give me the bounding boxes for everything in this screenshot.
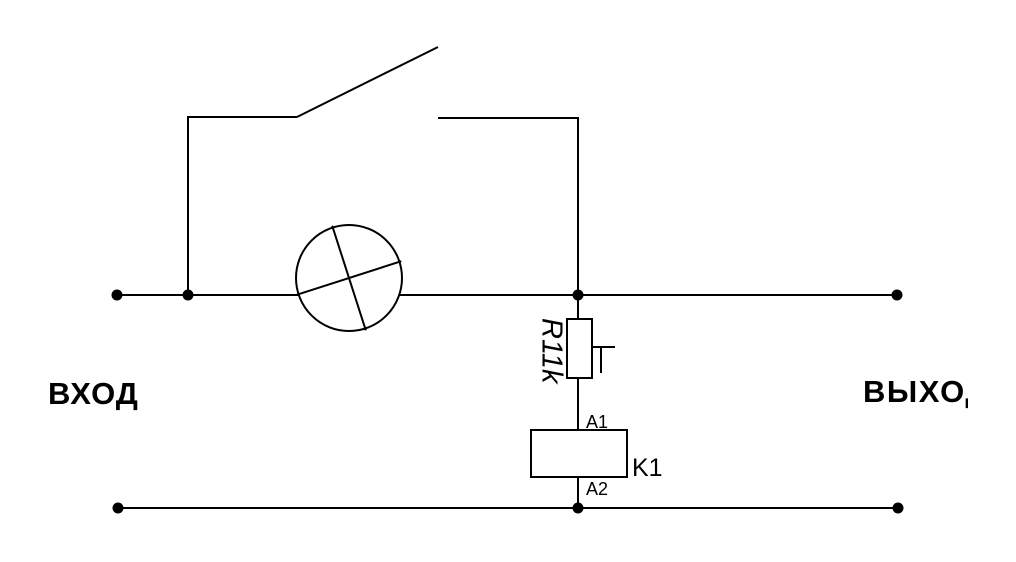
svg-text:K1: K1 bbox=[632, 454, 663, 482]
svg-text:A2: A2 bbox=[586, 479, 608, 499]
svg-text:R11k: R11k bbox=[536, 318, 568, 385]
svg-text:ВХОД: ВХОД bbox=[48, 376, 139, 411]
svg-text:A1: A1 bbox=[586, 412, 608, 432]
